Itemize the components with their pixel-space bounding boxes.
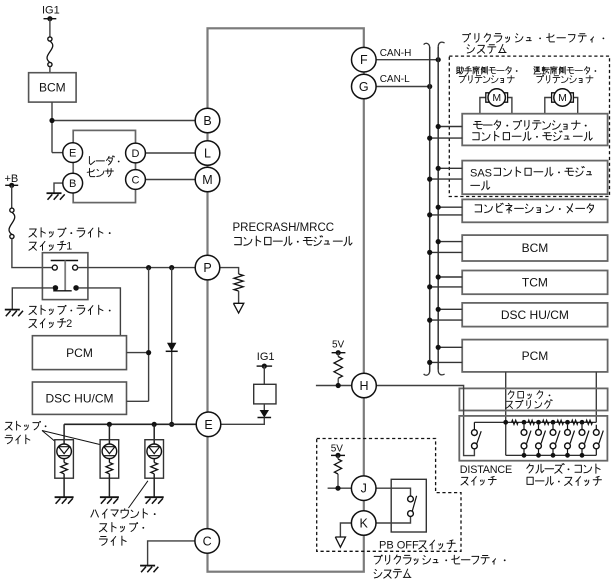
BCM box left xyxy=(29,73,77,102)
motor M2 xyxy=(545,98,552,114)
diode D2 xyxy=(263,404,265,410)
wire K to signal ground xyxy=(340,523,351,537)
pin K xyxy=(351,511,376,536)
pin E xyxy=(196,412,221,437)
pin J xyxy=(351,476,376,501)
wire switch2 to ground xyxy=(12,288,52,309)
DSC HU/CM box right xyxy=(462,303,607,327)
stop lamp housing xyxy=(145,440,164,479)
wire pin K to PB OFF switch xyxy=(376,517,411,524)
pin P xyxy=(195,255,220,280)
clock spring box xyxy=(459,388,607,410)
svg-text:CAN-L: CAN-L xyxy=(380,74,410,85)
junction dot to diode branch xyxy=(169,265,174,270)
svg-text:BCM: BCM xyxy=(522,241,549,255)
stop lamp bulb xyxy=(57,444,72,459)
wire IG1 to relay box xyxy=(263,366,265,384)
junction dot to PCM branch xyxy=(146,265,151,270)
motor pretensioner control module box xyxy=(462,114,607,146)
junction dot diode to lamp line xyxy=(169,422,174,427)
svg-text:DISTANCE: DISTANCE xyxy=(460,464,512,476)
wire +B to fuse xyxy=(11,185,13,208)
label stop light xyxy=(5,421,39,430)
svg-text:DSC HU/CM: DSC HU/CM xyxy=(46,392,114,406)
switch1 contacts xyxy=(52,265,57,270)
wire pin H to distance switch xyxy=(377,386,475,456)
CAN stubs DSC xyxy=(438,308,462,310)
svg-text:IG1: IG1 xyxy=(42,5,60,17)
stop lamp ground xyxy=(100,496,119,498)
radar pin B xyxy=(63,173,83,193)
dashed box pre-crash system bottom xyxy=(317,439,461,552)
PRECRASH/MRCC control module outline xyxy=(208,28,364,571)
SAS control module box xyxy=(462,161,607,195)
wire IG1 to fuse xyxy=(49,19,51,37)
wire brake signal vertical to PCM and DSC xyxy=(148,268,150,402)
stop lamp bulb xyxy=(147,444,162,459)
pin C xyxy=(195,529,220,554)
combination meter box xyxy=(462,199,607,222)
wire BCM to junction xyxy=(51,102,53,153)
CAN stubs PCM xyxy=(438,346,462,348)
ladder resistors xyxy=(512,420,518,424)
radar pin C xyxy=(126,170,146,190)
label pre-crash safety system top xyxy=(463,33,594,42)
svg-text:E: E xyxy=(69,148,76,160)
stop lamp wire xyxy=(63,424,65,444)
svg-text:BCM: BCM xyxy=(39,81,66,95)
CAN stubs combination meter xyxy=(438,206,462,208)
label cruise control switch xyxy=(527,464,600,474)
stop lamp housing xyxy=(100,440,119,479)
ground radar sensor xyxy=(47,192,62,194)
svg-text:C: C xyxy=(203,534,212,548)
wire PCM to clock spring right xyxy=(595,372,597,422)
junction dot BCM output xyxy=(49,118,54,123)
label pre-crash safety system bottom xyxy=(374,555,495,564)
svg-text:B: B xyxy=(203,114,211,128)
stop lamp filament resistor xyxy=(63,459,65,463)
stop lamp wire xyxy=(108,424,110,444)
junction dot CAN-H xyxy=(436,57,441,62)
signal ground triangle P xyxy=(233,303,243,313)
wire diode branch vertical xyxy=(171,268,173,425)
junction dot PCM stub xyxy=(146,350,151,355)
switch2 contacts xyxy=(53,285,59,291)
pin L xyxy=(195,141,220,166)
DISTANCE switch xyxy=(473,422,475,429)
pin M xyxy=(195,167,220,192)
svg-text:2: 2 xyxy=(66,318,72,330)
PCM box left xyxy=(32,336,126,370)
dashed box pre-crash system top xyxy=(449,56,609,196)
wire junction to radar pin E xyxy=(52,152,63,154)
wire H internal xyxy=(316,385,352,387)
svg-text:M: M xyxy=(558,92,567,104)
wire stop lamp feed line xyxy=(64,423,196,425)
svg-text:M: M xyxy=(202,173,212,187)
junction dot CAN-L xyxy=(427,84,432,89)
svg-text:E: E xyxy=(204,418,212,432)
svg-text:J: J xyxy=(361,482,367,496)
svg-text:P: P xyxy=(203,261,211,275)
TCM box xyxy=(462,271,607,295)
CAN stubs SAS module xyxy=(438,167,462,169)
radar pin E xyxy=(63,143,83,163)
DSC HU/CM box left xyxy=(32,382,126,414)
PCM box right xyxy=(462,340,607,372)
diode D1 xyxy=(167,343,176,351)
wire pin J to PB OFF switch xyxy=(376,488,411,496)
cruise control switches xyxy=(522,420,527,425)
stop lamp ground wire xyxy=(108,474,110,497)
svg-text:D: D xyxy=(132,148,140,160)
ladder top wire xyxy=(474,421,596,423)
pointer lines stop light label xyxy=(42,431,55,442)
stop lamp filament resistor xyxy=(108,459,110,463)
label stop light switch 1 xyxy=(29,228,103,237)
svg-text:5V: 5V xyxy=(331,443,344,454)
svg-text:PB OFF: PB OFF xyxy=(379,540,419,552)
svg-text:IG1: IG1 xyxy=(257,351,275,363)
stop lamp bulb xyxy=(102,444,117,459)
svg-text:TCM: TCM xyxy=(522,276,548,290)
svg-text:K: K xyxy=(360,517,369,531)
pin G xyxy=(352,74,377,99)
stop lamp wire xyxy=(153,424,155,444)
resistor R3 5V pullup xyxy=(337,455,339,459)
pin B xyxy=(195,108,220,133)
wire pin G CAN-L xyxy=(376,86,430,88)
label stop light switch 2 xyxy=(29,305,103,314)
CAN stubs TCM xyxy=(438,276,462,278)
PB OFF switch contacts xyxy=(408,496,414,502)
label driver side motor pretensioner xyxy=(534,66,590,74)
resistor R2 5V pullup xyxy=(337,353,339,357)
junction dot 5V pullup J xyxy=(335,486,340,491)
motor M1 xyxy=(480,98,486,114)
pointer line high mount label xyxy=(129,481,148,508)
signal ground triangle K xyxy=(335,537,345,547)
wire pin P to resistor xyxy=(220,268,239,274)
svg-text:B: B xyxy=(69,178,76,190)
junction dot 5V pullup xyxy=(336,383,341,388)
junction dot ladder left xyxy=(503,420,508,425)
stop lamp filament resistor xyxy=(153,459,155,463)
CAN stubs BCM xyxy=(438,241,462,243)
svg-text:5V: 5V xyxy=(332,340,345,351)
pin H xyxy=(352,373,377,398)
svg-text:F: F xyxy=(360,53,368,67)
wire fuse to BCM xyxy=(49,67,51,73)
wire diode to pin E xyxy=(221,418,264,425)
stop lamp ground xyxy=(55,496,74,498)
stop lamp housing xyxy=(55,440,74,479)
junction dot lamp2 xyxy=(107,422,112,427)
PB OFF switch box xyxy=(391,479,426,532)
svg-text:C: C xyxy=(132,175,140,187)
ground stop light switch xyxy=(5,309,20,311)
BCM box right xyxy=(462,235,607,261)
wire pin F CAN-H xyxy=(376,59,438,61)
twisted pair bottom xyxy=(424,371,430,375)
stop lamp ground xyxy=(145,496,164,498)
fuse F1 xyxy=(48,37,52,41)
fuse F2 xyxy=(10,208,14,212)
switch actuator xyxy=(51,260,78,262)
svg-text:PCM: PCM xyxy=(522,349,549,363)
wire radar C to pin M xyxy=(145,179,195,181)
junction dot lamp3 xyxy=(152,422,157,427)
svg-text:M: M xyxy=(492,92,501,104)
svg-text:SAS: SAS xyxy=(470,167,492,179)
ground pin C xyxy=(140,565,155,567)
wire radar D to pin L xyxy=(145,152,195,154)
wire switch2 to PCM xyxy=(79,288,121,336)
stop lamp ground wire xyxy=(153,474,155,497)
pin F xyxy=(352,47,377,72)
svg-text:H: H xyxy=(359,379,368,393)
resistor R1 xyxy=(234,274,243,291)
svg-text:G: G xyxy=(359,80,369,94)
svg-text:DSC HU/CM: DSC HU/CM xyxy=(501,308,569,322)
svg-text:L: L xyxy=(204,147,211,161)
label high mount stop light xyxy=(91,509,148,518)
cruise switch box xyxy=(459,416,607,461)
wire radar B to ground xyxy=(54,183,63,193)
svg-text:PCM: PCM xyxy=(66,346,93,360)
ladder bottom wire xyxy=(506,454,597,456)
wire pin C to ground xyxy=(148,541,195,565)
CAN stubs pretensioner module xyxy=(438,126,462,128)
radar sensor box xyxy=(73,130,135,202)
wire fuse to stop light switch xyxy=(12,239,53,268)
CAN bus line left xyxy=(429,47,431,372)
svg-text:PRECRASH/MRCC: PRECRASH/MRCC xyxy=(233,222,335,234)
stop light switch box xyxy=(42,253,88,300)
wire PCM to clock spring left xyxy=(505,372,507,455)
twisted pair top xyxy=(424,43,430,47)
svg-text:CAN-H: CAN-H xyxy=(380,48,412,59)
radar pin D xyxy=(126,143,146,163)
CAN bus line right xyxy=(437,47,439,370)
wire junction to pin B xyxy=(52,120,195,122)
relay box internal xyxy=(254,384,276,404)
stop lamp ground wire xyxy=(63,474,65,497)
label passenger side motor pretensioner xyxy=(456,66,511,74)
label radar sensor xyxy=(89,156,114,165)
svg-text:1: 1 xyxy=(66,240,72,252)
wire J internal xyxy=(328,487,352,489)
wire switch1 to pin P xyxy=(78,267,196,269)
